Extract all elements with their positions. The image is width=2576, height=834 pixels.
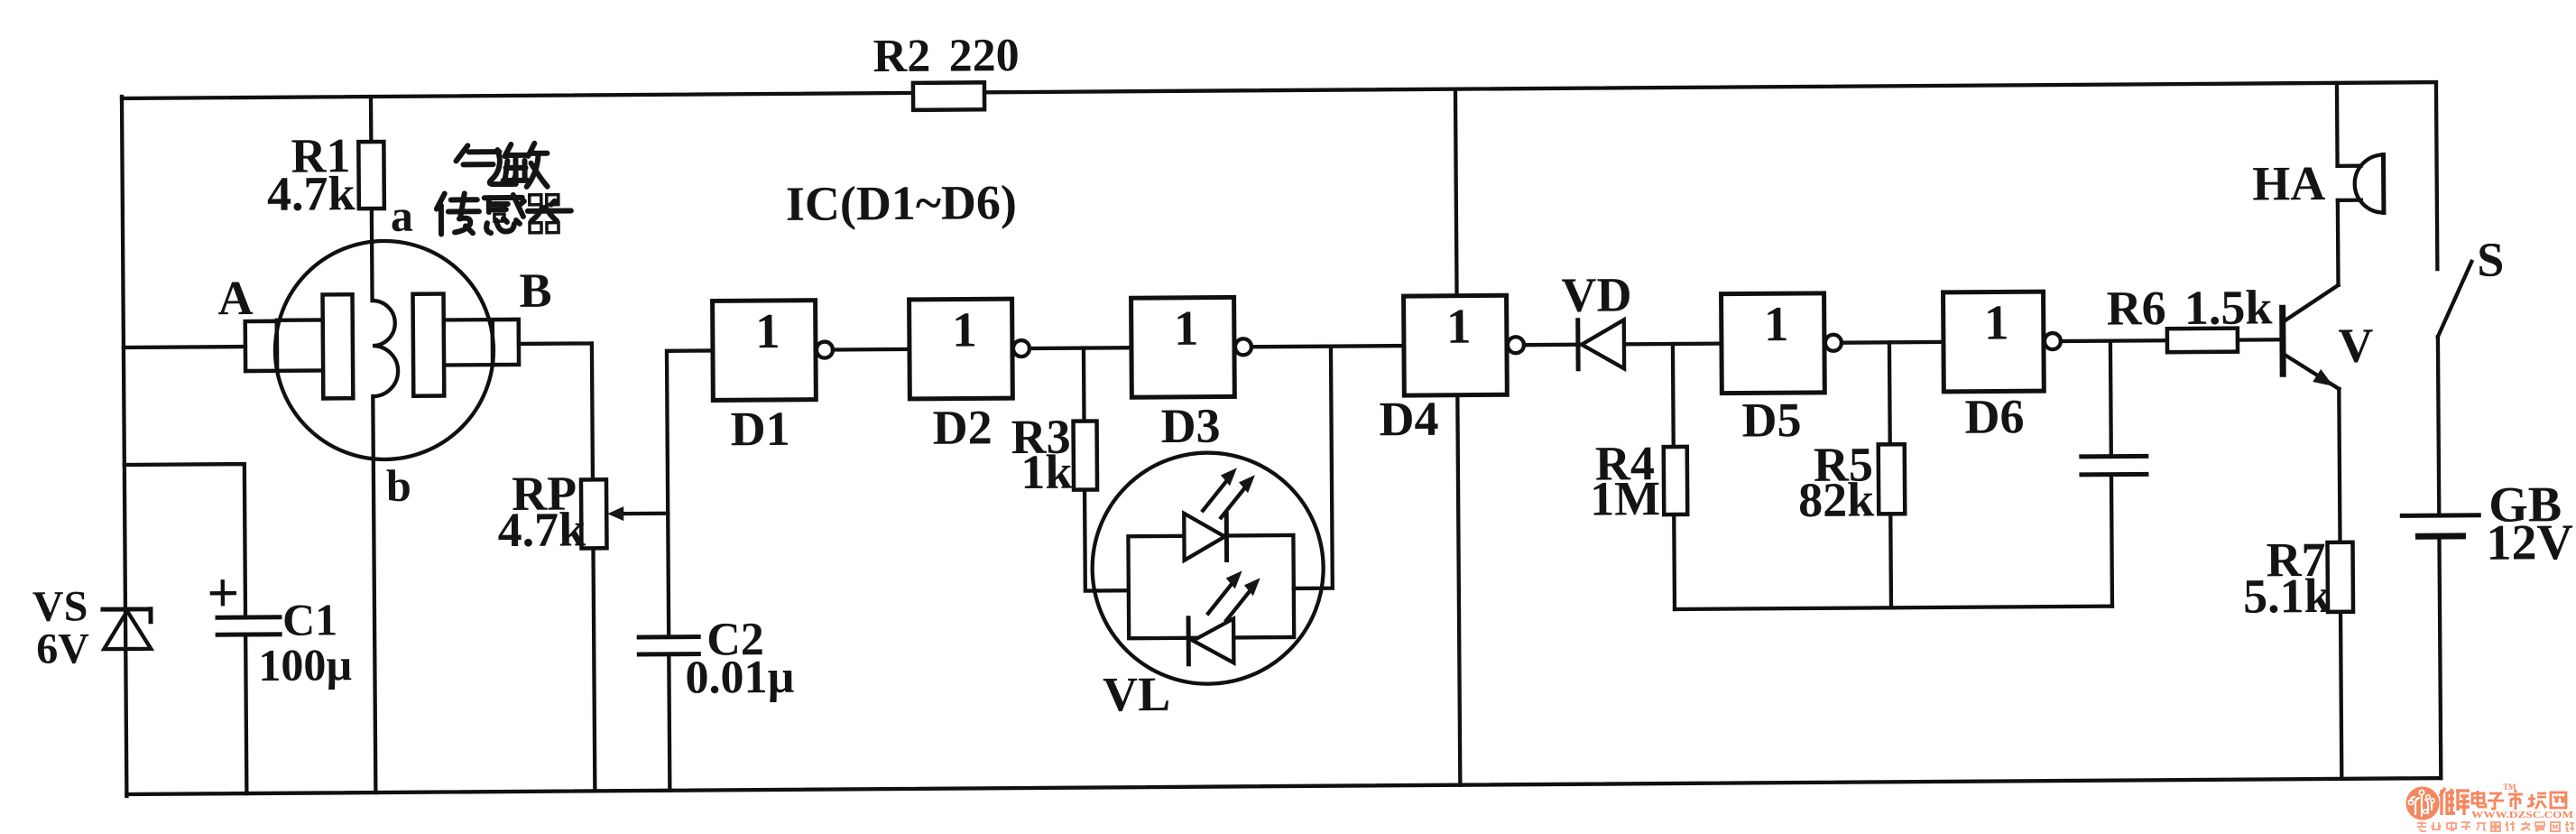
svg-text:1.5k: 1.5k [2184, 280, 2273, 335]
gas sensor tube [245, 240, 520, 460]
svg-text:12V: 12V [2486, 514, 2573, 571]
svg-text:82k: 82k [1798, 472, 1874, 527]
svg-text:1: 1 [1446, 299, 1472, 354]
buzzer HA [2252, 155, 2384, 214]
svg-text:D5: D5 [1741, 393, 1801, 447]
svg-text:WWW.DZSC.COM: WWW.DZSC.COM [2471, 810, 2574, 820]
svg-text:1k: 1k [1020, 445, 1072, 499]
capacitor C1 [212, 580, 353, 690]
svg-text:VD: VD [1561, 267, 1631, 322]
battery GB [2402, 477, 2573, 571]
svg-text:6V: 6V [36, 625, 89, 672]
watermark weiku big chars [2440, 788, 2470, 815]
svg-text:5.1k: 5.1k [2243, 569, 2331, 624]
wire battery to bottom rail [2439, 536, 2441, 778]
svg-text:D6: D6 [1964, 389, 2024, 443]
wire C1 branch [125, 464, 247, 794]
wire emitter to R7 [2339, 389, 2341, 779]
wire top rail [122, 82, 2436, 98]
capacitor unlabeled [2082, 456, 2147, 475]
wire R5 branch [1889, 342, 1891, 607]
resistor R7 [2243, 533, 2353, 624]
inverter gate D6 [1944, 292, 2062, 444]
resistor R6 [2106, 280, 2272, 352]
svg-text:R6: R6 [2106, 281, 2165, 335]
svg-text:C1: C1 [282, 594, 337, 644]
watermark slogan chars [2417, 821, 2574, 831]
svg-text:4.7k: 4.7k [267, 166, 355, 221]
wire R3 branch [1084, 347, 1129, 590]
svg-text:R2: R2 [873, 31, 930, 82]
resistor R2 [873, 30, 1020, 110]
svg-text:V: V [2338, 319, 2373, 373]
wire D2 to D3 [1029, 346, 1131, 350]
capacitor C2 [639, 614, 795, 704]
wire R1 / sensor filament vertical [371, 97, 401, 792]
svg-text:IC(D1~D6): IC(D1~D6) [786, 175, 1017, 231]
inverter gate D1 [713, 301, 834, 457]
wire bottom rail [126, 778, 2441, 794]
wire D3 to D4 [1251, 346, 1404, 347]
wire left rail [122, 97, 126, 796]
svg-text:D4: D4 [1379, 392, 1438, 446]
svg-text:HA: HA [2252, 156, 2325, 211]
svg-text:A: A [217, 271, 253, 325]
switch S [2436, 82, 2505, 338]
wire D5 to D6 [1842, 340, 1944, 345]
svg-text:B: B [519, 264, 551, 318]
node A wire [124, 345, 245, 349]
LED lamp VL [1092, 452, 1325, 722]
resistor R1 [266, 128, 383, 221]
wire VL branch [1292, 347, 1333, 588]
svg-text:VS: VS [32, 582, 88, 630]
wire bottom bus of R4 R5 C [1675, 607, 2112, 609]
svg-text:D2: D2 [932, 400, 992, 454]
wire R4 branch [1673, 344, 1675, 609]
svg-text:1: 1 [1984, 294, 2009, 349]
svg-text:1: 1 [1764, 296, 1789, 351]
svg-text:100µ: 100µ [258, 639, 352, 690]
svg-text:D1: D1 [730, 402, 789, 456]
diode VD [1561, 267, 1632, 369]
watermark market chars [2472, 790, 2566, 810]
potentiometer RP [497, 466, 668, 557]
node B wire [519, 343, 595, 792]
wire D4 to D5 [1524, 344, 1722, 346]
svg-text:S: S [2477, 233, 2504, 287]
svg-text:b: b [386, 460, 411, 511]
svg-text:a: a [391, 190, 413, 241]
transistor V [2283, 285, 2374, 390]
svg-text:220: 220 [948, 30, 1019, 82]
wire D1 input branch [667, 350, 716, 790]
svg-text:VL: VL [1103, 667, 1170, 722]
wire D1 to D2 [833, 347, 909, 352]
wire timing capacitor branch [2110, 341, 2112, 607]
resistor R3 [1011, 409, 1097, 499]
inverter gate D5 [1722, 293, 1842, 448]
wire S to battery [2438, 337, 2439, 515]
wire D6 to transistor base [2061, 339, 2283, 341]
label gas sensor chinese [436, 144, 571, 235]
svg-text:1: 1 [952, 301, 977, 357]
inverter gate D4 [1379, 295, 1525, 446]
wire collector to HA [2336, 200, 2341, 285]
inverter gate D3 [1131, 297, 1252, 453]
resistor R5 [1798, 437, 1906, 527]
svg-text:1: 1 [1174, 301, 1199, 356]
svg-text:4.7k: 4.7k [497, 502, 586, 557]
watermark logo circle [2406, 787, 2440, 820]
wire D4 vertical [1455, 89, 1460, 785]
wire HA drop [2335, 83, 2340, 166]
svg-text:1M: 1M [1590, 471, 1660, 526]
zener diode VS [32, 582, 152, 673]
svg-text:0.01µ: 0.01µ [685, 652, 794, 704]
svg-text:D3: D3 [1160, 399, 1220, 453]
inverter gate D2 [909, 299, 1030, 455]
svg-text:1: 1 [755, 303, 780, 358]
resistor R4 [1590, 436, 1688, 526]
